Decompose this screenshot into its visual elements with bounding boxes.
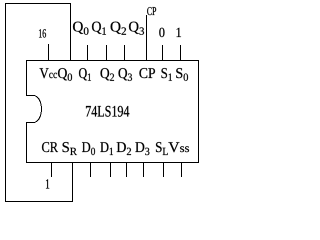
pin S0 stub <box>180 45 181 60</box>
pin label Q3 <box>119 68 133 81</box>
pin S1 stub <box>162 45 163 60</box>
pin label D3 <box>135 142 149 155</box>
pin label SL <box>156 142 168 155</box>
pin label S1 <box>162 68 173 81</box>
pin label CR <box>42 142 58 152</box>
pin label Q2 <box>101 68 115 81</box>
value 1 on CR pin <box>46 179 49 188</box>
pin Q2 stub <box>106 45 107 60</box>
pin label SR <box>63 142 77 155</box>
pin 16 Vcc stub <box>48 44 49 60</box>
pin label Vcc <box>40 68 58 78</box>
value 0 on S1 <box>159 28 164 37</box>
pin SL stub <box>163 162 164 177</box>
pin D0 stub <box>90 162 91 177</box>
value 1 on S0 <box>177 28 181 37</box>
IC U1: 74LS194 shift register body outline with notch on left edge <box>27 61 199 163</box>
pin D3 stub <box>143 162 144 177</box>
node Q1 <box>92 22 106 35</box>
pin number 16 label <box>39 29 46 37</box>
wire: Q0 pin vertical (top, part of loop) <box>70 3 71 61</box>
pin CR stub <box>51 162 52 177</box>
node Q2 <box>111 22 126 35</box>
pin label S0 <box>176 68 188 81</box>
pin Q1 stub <box>87 45 88 60</box>
pin label CP <box>139 68 155 78</box>
pin Q3 stub <box>124 45 125 60</box>
pin D2 stub <box>126 162 127 177</box>
pin label D0 <box>82 142 95 155</box>
pin D1 stub <box>110 162 111 177</box>
pin label D1 <box>100 142 113 155</box>
pin Vss stub <box>181 162 182 177</box>
wire: feedback loop from Q0 (top) around left side to SR (bottom) <box>5 3 73 202</box>
pin label Q0 <box>58 68 72 81</box>
node Q3 <box>129 22 144 35</box>
node CP (clock net label) <box>147 7 156 15</box>
pin label Vss <box>168 142 189 152</box>
wire: SR pin vertical (bottom, part of loop) <box>72 162 73 202</box>
value label 74LS194 <box>86 106 129 117</box>
pin label D2 <box>117 142 131 155</box>
node Q0 (output label above pin) <box>73 22 89 35</box>
wire: CP clock input line <box>146 15 147 60</box>
pin label Q1 <box>79 68 91 81</box>
